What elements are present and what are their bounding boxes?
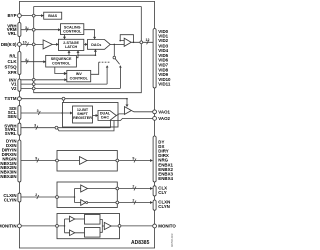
svg-text:AD8385: AD8385 — [131, 240, 150, 246]
svg-text:SEQUENCE: SEQUENCE — [51, 57, 72, 61]
svg-text:CONTROL: CONTROL — [52, 62, 71, 66]
svg-text:2: 2 — [35, 193, 37, 197]
svg-text:V2: V2 — [11, 86, 17, 91]
svg-text:REGISTER: REGISTER — [73, 116, 92, 120]
svg-text:4: 4 — [25, 58, 27, 62]
svg-text:CONTROL: CONTROL — [63, 30, 82, 34]
svg-text:VRL: VRL — [8, 31, 17, 36]
svg-text:CLK: CLK — [7, 59, 17, 64]
svg-text:ENBX4: ENBX4 — [158, 176, 173, 181]
svg-text:DACs: DACs — [91, 43, 101, 47]
svg-text:CLYN: CLYN — [158, 204, 170, 209]
svg-text:DAC: DAC — [101, 115, 109, 119]
svg-text:VID11: VID11 — [158, 82, 171, 87]
svg-text:BIAS: BIAS — [48, 14, 57, 18]
svg-text:TSTM: TSTM — [5, 96, 17, 101]
svg-text:CONTROL: CONTROL — [70, 77, 89, 81]
svg-text:CLY: CLY — [158, 190, 166, 195]
svg-text:10: 10 — [23, 40, 27, 44]
svg-text:VAO2: VAO2 — [158, 116, 170, 121]
svg-text:VAO1: VAO1 — [158, 109, 170, 114]
svg-text:SVRL: SVRL — [5, 131, 17, 136]
svg-text:MONITIN: MONITIN — [0, 223, 17, 228]
svg-text:12: 12 — [146, 38, 150, 42]
svg-text:VID2: VID2 — [158, 38, 168, 43]
svg-text:2: 2 — [132, 199, 134, 203]
svg-text:STSQ: STSQ — [5, 65, 18, 70]
svg-text:LATCH: LATCH — [65, 45, 78, 49]
svg-text:06708-063: 06708-063 — [170, 233, 174, 247]
svg-text:3: 3 — [37, 109, 39, 113]
svg-text:DB(9:0): DB(9:0) — [1, 42, 17, 47]
svg-text:9: 9 — [35, 157, 37, 161]
svg-text:R/L: R/L — [9, 54, 16, 59]
svg-text:BYP: BYP — [7, 13, 16, 18]
svg-text:3: 3 — [34, 124, 36, 128]
svg-text:MONITOR: MONITOR — [158, 224, 176, 229]
svg-text:3: 3 — [25, 26, 27, 30]
svg-text:XFR: XFR — [8, 70, 18, 75]
svg-text:2: 2 — [132, 185, 134, 189]
svg-text:INV: INV — [76, 72, 83, 76]
svg-text:9: 9 — [132, 157, 134, 161]
svg-text:SEN: SEN — [7, 114, 16, 119]
svg-text:ENBX4IN: ENBX4IN — [0, 174, 17, 179]
svg-text:CLYIN: CLYIN — [4, 197, 17, 202]
